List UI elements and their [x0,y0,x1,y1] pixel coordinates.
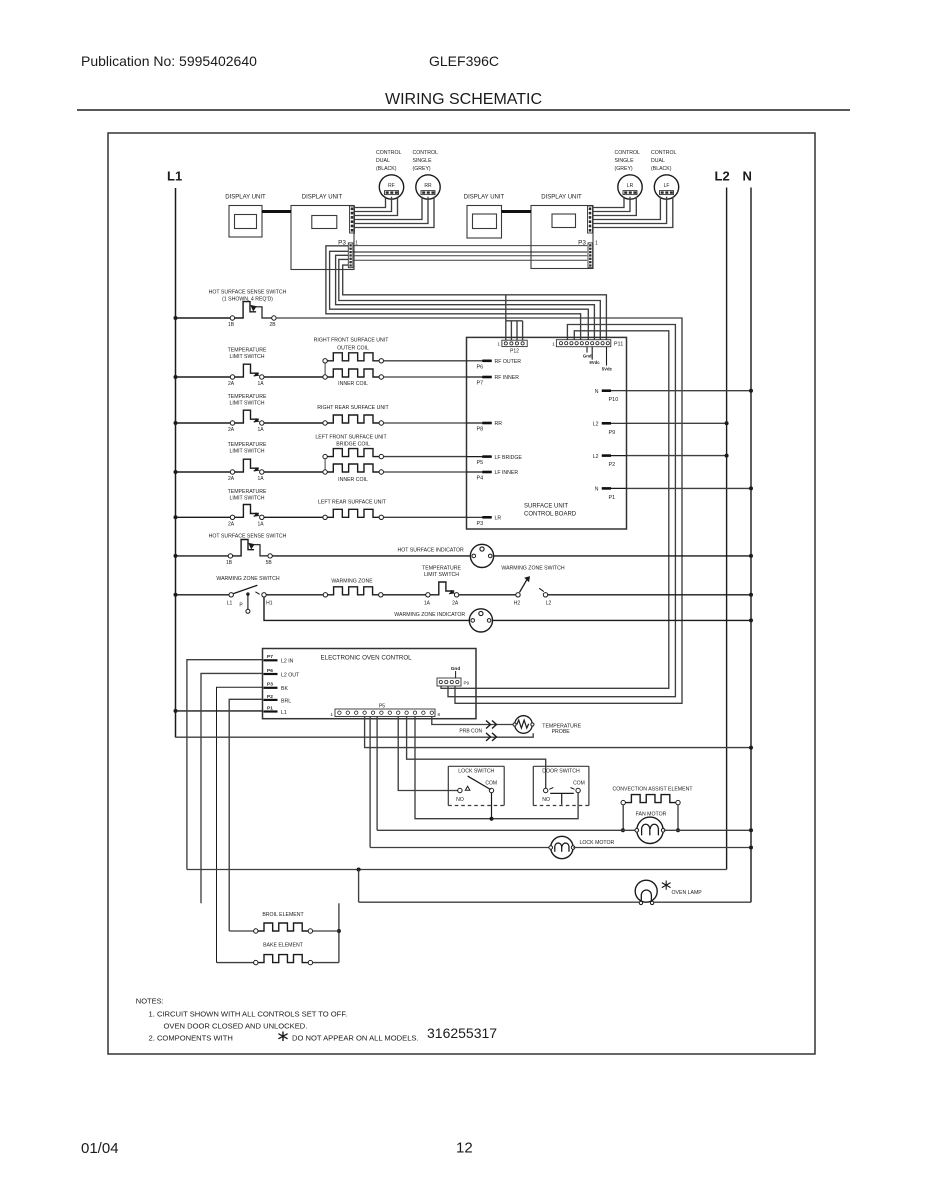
svg-text:DISPLAY UNIT: DISPLAY UNIT [302,195,343,201]
svg-text:COM: COM [485,780,497,786]
svg-text:TEMPERATURE: TEMPERATURE [228,394,267,400]
svg-text:CONTROL: CONTROL [376,150,401,156]
svg-text:LIMIT SWITCH: LIMIT SWITCH [229,496,264,502]
svg-text:SURFACE UNIT: SURFACE UNIT [524,504,568,510]
svg-text:DISPLAY UNIT: DISPLAY UNIT [225,195,266,201]
svg-text:9Vdc: 9Vdc [589,360,600,365]
svg-text:LOCK MOTOR: LOCK MOTOR [580,840,615,846]
svg-text:(1 SHOWN, 4 REQ'D): (1 SHOWN, 4 REQ'D) [222,297,273,303]
svg-text:5Vdc: 5Vdc [602,366,613,371]
svg-text:1: 1 [595,241,598,247]
svg-text:2. COMPONENTS WITH: 2. COMPONENTS WITH [149,1034,233,1043]
svg-text:P10: P10 [609,397,619,403]
svg-text:(GREY): (GREY) [413,166,431,172]
svg-text:LIMIT SWITCH: LIMIT SWITCH [229,354,264,360]
svg-text:L2 IN: L2 IN [281,659,294,665]
svg-text:1B: 1B [228,322,235,328]
svg-text:P7: P7 [477,381,484,387]
svg-text:RR: RR [424,183,432,189]
svg-text:DO NOT APPEAR ON ALL MODELS.: DO NOT APPEAR ON ALL MODELS. [292,1034,419,1043]
svg-text:HOT SURFACE SENSE SWITCH: HOT SURFACE SENSE SWITCH [209,534,287,540]
svg-text:COM: COM [573,780,585,786]
svg-text:P2: P2 [609,462,616,468]
svg-text:2A: 2A [228,476,235,482]
svg-text:12: 12 [456,1140,473,1157]
svg-text:LF: LF [664,183,670,189]
svg-text:N: N [595,389,599,395]
svg-text:P8: P8 [477,427,484,433]
svg-text:DISPLAY UNIT: DISPLAY UNIT [541,195,582,201]
svg-text:LF INNER: LF INNER [495,470,519,476]
svg-text:LIMIT SWITCH: LIMIT SWITCH [229,401,264,407]
svg-text:DOOR SWITCH: DOOR SWITCH [542,769,580,775]
svg-text:WIRING SCHEMATIC: WIRING SCHEMATIC [385,91,542,108]
svg-text:BK: BK [281,686,288,692]
svg-text:(BLACK): (BLACK) [651,166,672,172]
svg-text:1A: 1A [424,601,431,607]
svg-text:RIGHT REAR SURFACE UNIT: RIGHT REAR SURFACE UNIT [317,405,389,411]
svg-text:LIMIT SWITCH: LIMIT SWITCH [424,572,459,578]
svg-text:Gnd: Gnd [583,354,592,359]
svg-text:1B: 1B [226,560,233,566]
svg-text:L1: L1 [227,600,233,606]
svg-text:H2: H2 [514,601,521,607]
svg-text:WARMING ZONE: WARMING ZONE [331,578,373,584]
svg-text:LEFT FRONT SURFACE UNIT: LEFT FRONT SURFACE UNIT [315,434,387,440]
svg-text:316255317: 316255317 [427,1025,497,1041]
svg-text:INNER COIL: INNER COIL [338,381,368,387]
svg-text:LIMIT SWITCH: LIMIT SWITCH [229,449,264,455]
svg-text:SINGLE: SINGLE [615,158,635,164]
svg-text:H1: H1 [266,600,273,606]
svg-text:NOTES:: NOTES: [136,997,164,1006]
svg-text:L2: L2 [546,601,552,607]
svg-text:2A: 2A [228,521,235,527]
svg-text:SINGLE: SINGLE [413,158,433,164]
svg-text:Publication No: 5995402640: Publication No: 5995402640 [81,53,257,69]
svg-text:P6: P6 [477,364,484,370]
svg-text:1A: 1A [257,381,264,387]
svg-text:CONTROL BOARD: CONTROL BOARD [524,512,577,518]
svg-text:DUAL: DUAL [651,158,665,164]
svg-text:WARMING ZONE INDICATOR: WARMING ZONE INDICATOR [394,612,465,618]
svg-text:LF BRIDGE: LF BRIDGE [495,455,523,461]
svg-text:OVEN LAMP: OVEN LAMP [672,890,703,896]
svg-text:CONVECTION ASSIST ELEMENT: CONVECTION ASSIST ELEMENT [612,786,693,792]
svg-text:NO: NO [456,797,464,803]
svg-text:GLEF396C: GLEF396C [429,53,499,69]
svg-text:TEMPERATURE: TEMPERATURE [228,442,267,448]
svg-text:DISPLAY UNIT: DISPLAY UNIT [464,195,505,201]
svg-text:LR: LR [627,183,634,189]
svg-text:LEFT REAR SURFACE UNIT: LEFT REAR SURFACE UNIT [318,499,387,505]
svg-text:01/04: 01/04 [81,1140,119,1157]
svg-text:P5: P5 [477,460,484,466]
svg-text:(BLACK): (BLACK) [376,166,397,172]
svg-text:L2: L2 [593,422,599,428]
svg-text:DUAL: DUAL [376,158,390,164]
svg-text:P9: P9 [609,430,616,436]
svg-text:RF OUTER: RF OUTER [495,359,522,365]
svg-text:TEMPERATURE: TEMPERATURE [228,348,267,354]
svg-text:WARMING ZONE SWITCH: WARMING ZONE SWITCH [216,576,279,582]
svg-text:HOT SURFACE INDICATOR: HOT SURFACE INDICATOR [398,547,465,553]
svg-text:RF: RF [388,183,395,189]
svg-text:OVEN DOOR CLOSED AND UNLOCKED.: OVEN DOOR CLOSED AND UNLOCKED. [164,1022,308,1031]
svg-text:CONTROL: CONTROL [413,150,438,156]
svg-text:HOT SURFACE SENSE SWITCH: HOT SURFACE SENSE SWITCH [209,290,287,296]
svg-text:1A: 1A [257,476,264,482]
svg-text:BRIDGE COIL: BRIDGE COIL [336,442,370,448]
svg-text:2A: 2A [228,381,235,387]
svg-text:2A: 2A [228,427,235,433]
svg-text:2A: 2A [452,601,459,607]
svg-text:PRB CON: PRB CON [459,729,482,735]
svg-text:N: N [743,169,752,184]
svg-text:TEMPERATURE: TEMPERATURE [422,565,461,571]
svg-text:L1: L1 [281,710,287,716]
svg-text:ELECTRONIC OVEN CONTROL: ELECTRONIC OVEN CONTROL [321,655,413,662]
svg-text:BROIL ELEMENT: BROIL ELEMENT [262,912,304,918]
svg-text:RR: RR [495,421,503,427]
svg-text:1. CIRCUIT SHOWN WITH ALL CON: 1. CIRCUIT SHOWN WITH ALL CONTROLS SET T… [149,1009,348,1018]
svg-text:P3: P3 [477,521,484,527]
svg-text:L1: L1 [167,169,182,184]
svg-text:RF INNER: RF INNER [495,375,520,381]
svg-text:P9: P9 [464,681,470,686]
svg-text:L2: L2 [715,169,730,184]
svg-text:1A: 1A [257,521,264,527]
svg-text:N: N [595,487,599,493]
svg-text:P11: P11 [614,342,623,348]
svg-text:L2 OUT: L2 OUT [281,672,300,678]
svg-text:OUTER COIL: OUTER COIL [337,346,369,352]
svg-text:LOCK SWITCH: LOCK SWITCH [458,769,494,775]
svg-text:TEMPERATURE: TEMPERATURE [228,489,267,495]
svg-text:WARMING ZONE SWITCH: WARMING ZONE SWITCH [501,565,564,571]
svg-text:L2: L2 [593,454,599,460]
svg-text:1A: 1A [257,427,264,433]
svg-text:RIGHT FRONT SURFACE UNIT: RIGHT FRONT SURFACE UNIT [314,338,390,344]
svg-text:CONTROL: CONTROL [651,150,676,156]
svg-text:5B: 5B [266,560,273,566]
svg-text:NO: NO [542,797,550,803]
svg-text:LR: LR [495,516,502,522]
svg-text:P4: P4 [477,476,484,482]
svg-text:PROBE: PROBE [552,729,571,735]
svg-text:(GREY): (GREY) [615,166,633,172]
svg-text:P12: P12 [510,349,519,355]
svg-text:2B: 2B [269,322,276,328]
svg-text:P1: P1 [609,495,616,501]
svg-text:INNER COIL: INNER COIL [338,477,368,483]
svg-text:CONTROL: CONTROL [615,150,640,156]
svg-text:BAKE ELEMENT: BAKE ELEMENT [263,943,304,949]
svg-text:BRL: BRL [281,698,291,704]
svg-text:P5: P5 [379,704,385,710]
